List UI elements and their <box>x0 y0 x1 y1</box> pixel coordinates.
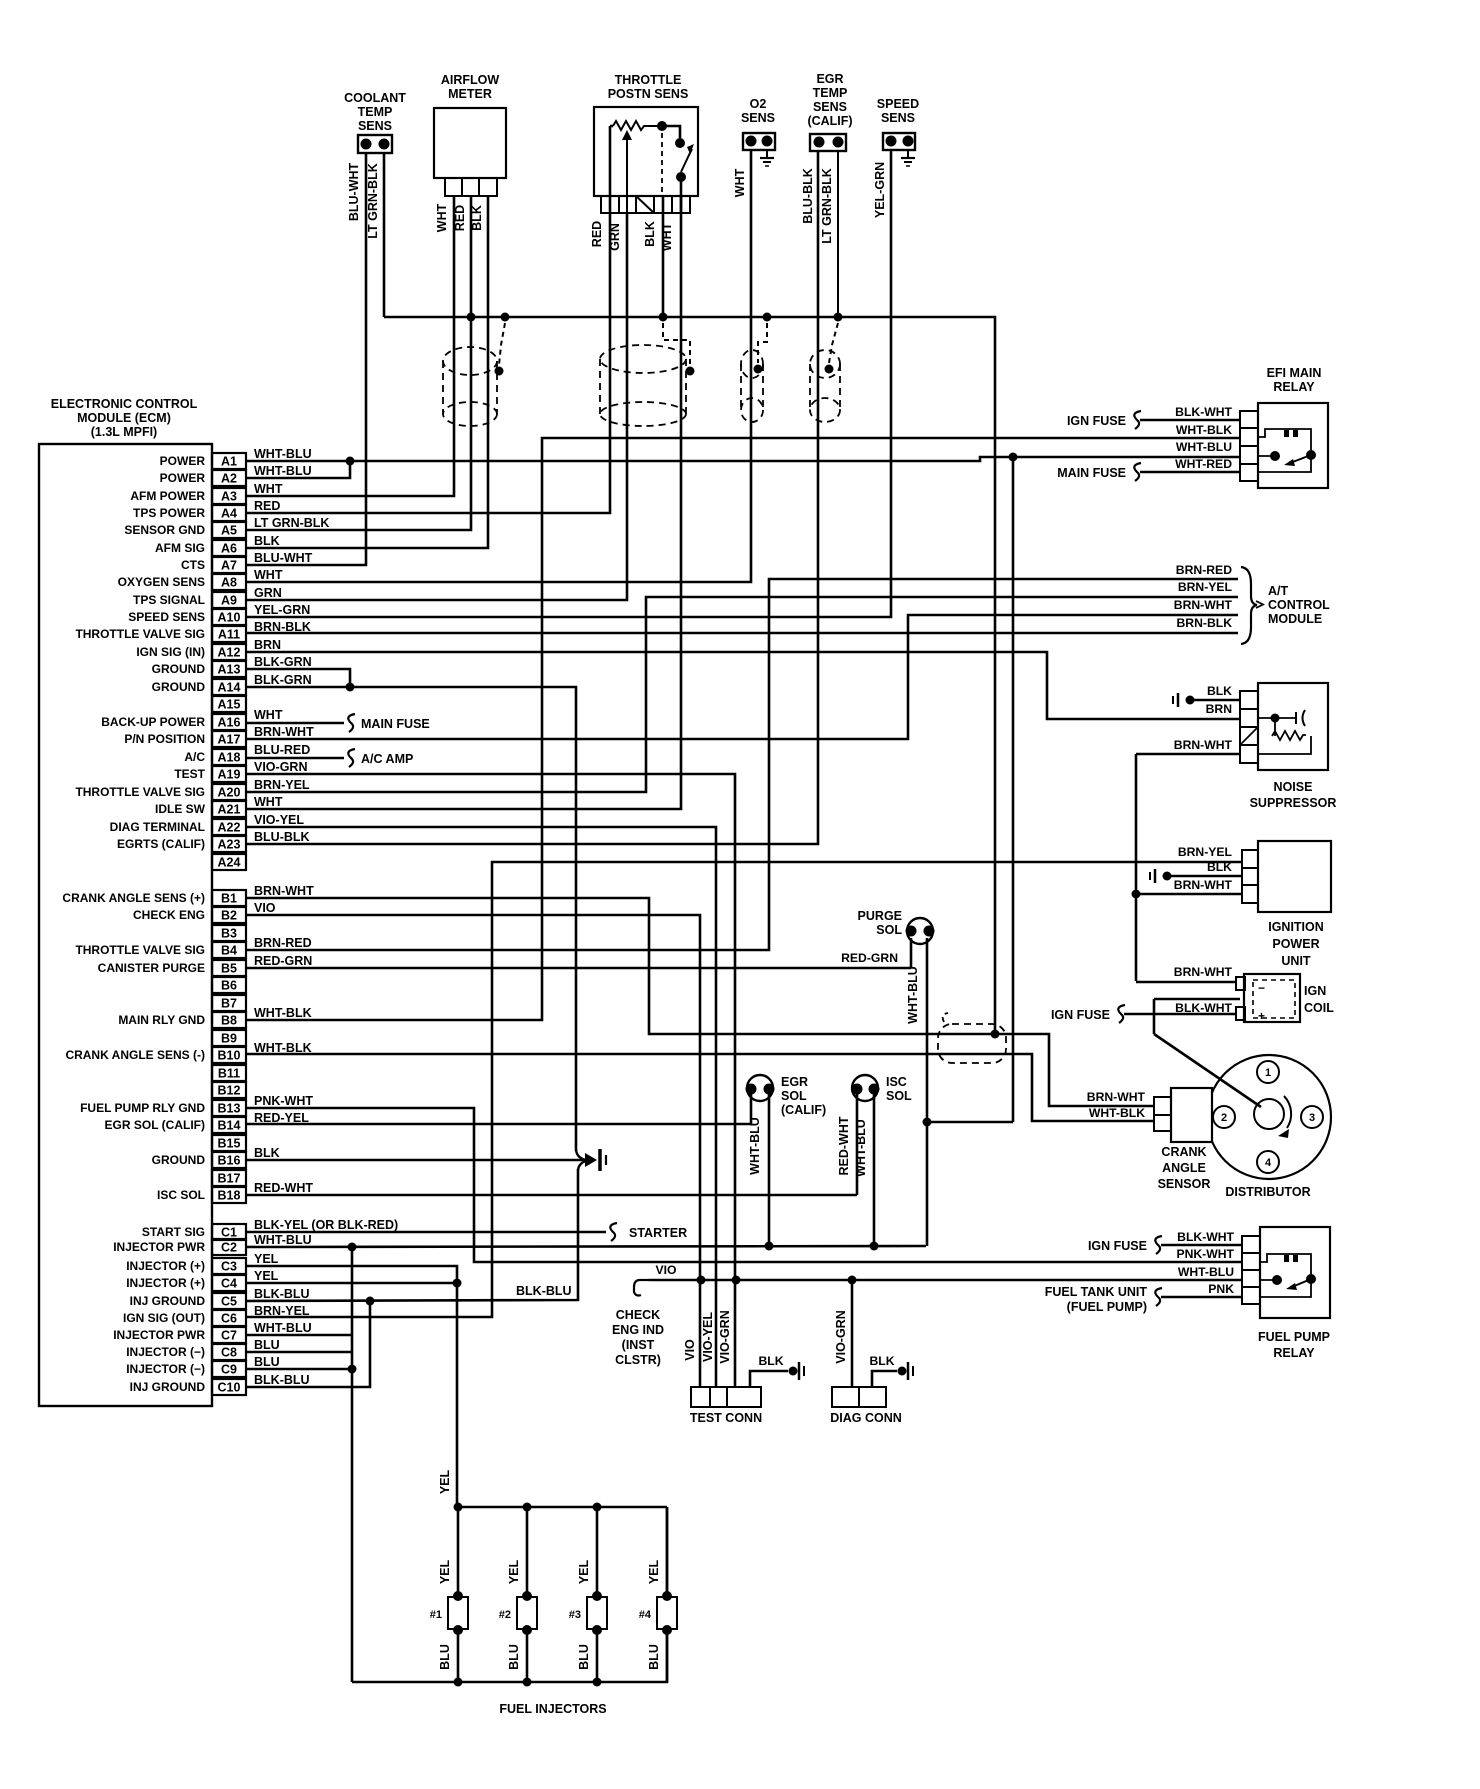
svg-text:LT GRN-BLK: LT GRN-BLK <box>820 168 834 243</box>
svg-text:VIO: VIO <box>254 901 276 915</box>
svg-text:START SIG: START SIG <box>142 1225 205 1239</box>
svg-text:INJECTOR (+): INJECTOR (+) <box>126 1276 205 1290</box>
svg-text:VIO-YEL: VIO-YEL <box>701 1312 715 1362</box>
svg-text:BLU: BLU <box>254 1355 280 1369</box>
svg-text:WHT-BLU: WHT-BLU <box>906 966 920 1024</box>
svg-text:BRN: BRN <box>254 638 281 652</box>
svg-text:ISC SOL: ISC SOL <box>157 1188 205 1202</box>
svg-text:BLK-WHT: BLK-WHT <box>1177 1230 1234 1244</box>
svg-text:BLU: BLU <box>507 1644 521 1670</box>
svg-text:ELECTRONIC CONTROL: ELECTRONIC CONTROL <box>51 397 198 411</box>
svg-text:BLK-BLU: BLK-BLU <box>254 1287 310 1301</box>
svg-text:WHT-BLK: WHT-BLK <box>1089 1106 1145 1120</box>
svg-text:A4: A4 <box>221 507 237 521</box>
svg-text:4: 4 <box>1265 1157 1272 1169</box>
svg-text:INJECTOR (−): INJECTOR (−) <box>126 1345 205 1359</box>
svg-text:C9: C9 <box>221 1363 237 1377</box>
svg-text:SENS: SENS <box>813 100 847 114</box>
svg-text:#4: #4 <box>639 1609 652 1621</box>
svg-text:BLU: BLU <box>577 1644 591 1670</box>
svg-text:WHT-BLU: WHT-BLU <box>1176 440 1232 454</box>
svg-text:WHT: WHT <box>254 708 283 722</box>
svg-text:BLU-WHT: BLU-WHT <box>254 551 313 565</box>
svg-text:UNIT: UNIT <box>1281 954 1311 968</box>
svg-text:CANISTER PURGE: CANISTER PURGE <box>98 961 205 975</box>
svg-text:BRN-RED: BRN-RED <box>254 936 312 950</box>
svg-text:IDLE SW: IDLE SW <box>155 802 206 816</box>
svg-text:BLK: BLK <box>869 1354 894 1368</box>
svg-text:WHT-BLK: WHT-BLK <box>254 1006 312 1020</box>
svg-text:WHT: WHT <box>254 795 283 809</box>
svg-text:CHECK: CHECK <box>616 1308 660 1322</box>
svg-text:TEMP: TEMP <box>813 86 848 100</box>
svg-text:SENSOR GND: SENSOR GND <box>124 523 205 537</box>
svg-text:MAIN FUSE: MAIN FUSE <box>361 717 430 731</box>
svg-text:(1.3L MPFI): (1.3L MPFI) <box>91 425 157 439</box>
svg-text:#1: #1 <box>430 1609 442 1621</box>
svg-text:EGR: EGR <box>816 72 843 86</box>
svg-text:BRN-BLK: BRN-BLK <box>1176 616 1232 630</box>
svg-text:DIAG CONN: DIAG CONN <box>830 1411 902 1425</box>
svg-text:A/T: A/T <box>1268 584 1289 598</box>
svg-text:CLSTR): CLSTR) <box>615 1353 661 1367</box>
svg-text:PNK-WHT: PNK-WHT <box>254 1094 313 1108</box>
svg-text:BLK: BLK <box>254 534 280 548</box>
svg-text:B18: B18 <box>218 1189 241 1203</box>
svg-text:ENG IND: ENG IND <box>612 1323 664 1337</box>
svg-text:YEL-GRN: YEL-GRN <box>873 162 887 218</box>
svg-text:SUPPRESSOR: SUPPRESSOR <box>1250 796 1337 810</box>
svg-text:CHECK ENG: CHECK ENG <box>133 908 205 922</box>
svg-text:B15: B15 <box>218 1137 241 1151</box>
svg-text:IGN SIG (OUT): IGN SIG (OUT) <box>123 1311 205 1325</box>
svg-text:TEMP: TEMP <box>358 105 393 119</box>
svg-text:PNK: PNK <box>1208 1282 1234 1296</box>
svg-text:METER: METER <box>448 87 492 101</box>
svg-text:BLK: BLK <box>758 1354 783 1368</box>
svg-text:B12: B12 <box>218 1084 241 1098</box>
svg-text:EFI MAIN: EFI MAIN <box>1267 366 1322 380</box>
svg-text:A13: A13 <box>218 663 241 677</box>
svg-text:BLK: BLK <box>254 1146 280 1160</box>
svg-text:C10: C10 <box>218 1381 241 1395</box>
svg-text:AFM POWER: AFM POWER <box>130 489 205 503</box>
svg-text:WHT-RED: WHT-RED <box>1175 457 1232 471</box>
svg-text:SENSOR: SENSOR <box>1158 1177 1211 1191</box>
svg-text:WHT-BLU: WHT-BLU <box>254 1233 312 1247</box>
svg-text:(INST: (INST <box>622 1338 655 1352</box>
svg-text:BRN-WHT: BRN-WHT <box>1174 878 1233 892</box>
svg-text:YEL: YEL <box>647 1559 661 1584</box>
svg-text:EGR: EGR <box>781 1075 808 1089</box>
svg-text:C5: C5 <box>221 1295 237 1309</box>
svg-text:P/N POSITION: P/N POSITION <box>124 732 205 746</box>
svg-text:PURGE: PURGE <box>858 909 902 923</box>
svg-text:CRANK ANGLE SENS (-): CRANK ANGLE SENS (-) <box>65 1048 205 1062</box>
svg-text:A8: A8 <box>221 576 237 590</box>
svg-text:BRN-YEL: BRN-YEL <box>1178 845 1233 859</box>
svg-text:A15: A15 <box>218 698 241 712</box>
svg-text:C7: C7 <box>221 1329 237 1343</box>
svg-text:VIO-GRN: VIO-GRN <box>254 760 307 774</box>
svg-text:(CALIF): (CALIF) <box>807 114 852 128</box>
svg-text:BLK: BLK <box>1207 860 1232 874</box>
svg-text:ISC: ISC <box>886 1075 907 1089</box>
svg-text:A24: A24 <box>218 856 241 870</box>
svg-text:BRN-WHT: BRN-WHT <box>254 884 314 898</box>
svg-text:BLK: BLK <box>643 221 657 247</box>
svg-text:YEL: YEL <box>254 1269 279 1283</box>
svg-text:BLK-GRN: BLK-GRN <box>254 673 312 687</box>
svg-text:COOLANT: COOLANT <box>344 91 406 105</box>
svg-text:RED: RED <box>453 205 467 231</box>
svg-text:INJECTOR (+): INJECTOR (+) <box>126 1259 205 1273</box>
svg-text:BLU-BLK: BLU-BLK <box>254 830 310 844</box>
svg-text:A21: A21 <box>218 803 241 817</box>
svg-text:BLK: BLK <box>470 205 484 231</box>
svg-text:A/C AMP: A/C AMP <box>361 752 413 766</box>
svg-text:(FUEL PUMP): (FUEL PUMP) <box>1067 1300 1147 1314</box>
svg-text:BLK-BLU: BLK-BLU <box>254 1373 310 1387</box>
svg-text:SENS: SENS <box>741 111 775 125</box>
svg-text:COIL: COIL <box>1304 1001 1334 1015</box>
svg-text:YEL: YEL <box>577 1559 591 1584</box>
svg-text:RELAY: RELAY <box>1273 380 1315 394</box>
svg-text:SPEED: SPEED <box>877 97 919 111</box>
svg-text:BLK-YEL (OR BLK-RED): BLK-YEL (OR BLK-RED) <box>254 1218 398 1232</box>
svg-text:C3: C3 <box>221 1260 237 1274</box>
svg-text:THROTTLE VALVE SIG: THROTTLE VALVE SIG <box>75 627 205 641</box>
svg-text:B17: B17 <box>218 1172 241 1186</box>
svg-text:IGN FUSE: IGN FUSE <box>1051 1008 1110 1022</box>
svg-text:A3: A3 <box>221 490 237 504</box>
svg-text:A7: A7 <box>221 559 237 573</box>
svg-text:BLU: BLU <box>647 1644 661 1670</box>
svg-text:B16: B16 <box>218 1154 241 1168</box>
svg-text:STARTER: STARTER <box>629 1226 687 1240</box>
svg-text:A23: A23 <box>218 838 241 852</box>
svg-text:C8: C8 <box>221 1346 237 1360</box>
svg-text:BLK-GRN: BLK-GRN <box>254 655 312 669</box>
svg-text:LT GRN-BLK: LT GRN-BLK <box>254 516 329 530</box>
svg-text:WHT-BLU: WHT-BLU <box>748 1117 762 1175</box>
svg-text:IGN SIG (IN): IGN SIG (IN) <box>136 645 205 659</box>
svg-text:TPS POWER: TPS POWER <box>133 506 205 520</box>
svg-text:POSTN SENS: POSTN SENS <box>608 87 689 101</box>
svg-text:INJECTOR PWR: INJECTOR PWR <box>113 1328 205 1342</box>
svg-text:INJ GROUND: INJ GROUND <box>130 1380 206 1394</box>
svg-text:BRN-WHT: BRN-WHT <box>1087 1090 1146 1104</box>
svg-text:BLU: BLU <box>254 1338 280 1352</box>
svg-text:B8: B8 <box>221 1014 237 1028</box>
svg-text:GROUND: GROUND <box>152 1153 206 1167</box>
svg-text:WHT-BLU: WHT-BLU <box>854 1119 868 1177</box>
svg-text:RED-WHT: RED-WHT <box>837 1116 851 1175</box>
svg-text:VIO: VIO <box>656 1263 677 1277</box>
svg-text:MODULE: MODULE <box>1268 612 1322 626</box>
svg-text:BLU: BLU <box>438 1644 452 1670</box>
svg-text:AIRFLOW: AIRFLOW <box>441 73 500 87</box>
svg-text:3: 3 <box>1309 1112 1315 1124</box>
svg-text:MAIN FUSE: MAIN FUSE <box>1057 466 1126 480</box>
svg-text:RED-GRN: RED-GRN <box>841 951 898 965</box>
svg-text:WHT: WHT <box>660 222 674 251</box>
svg-text:+: + <box>1258 1009 1265 1023</box>
svg-text:YEL: YEL <box>438 1559 452 1584</box>
svg-text:THROTTLE VALVE SIG: THROTTLE VALVE SIG <box>75 943 205 957</box>
svg-text:CONTROL: CONTROL <box>1268 598 1330 612</box>
svg-text:MODULE (ECM): MODULE (ECM) <box>77 411 171 425</box>
svg-text:YEL: YEL <box>254 1252 279 1266</box>
svg-text:IGNITION: IGNITION <box>1268 920 1324 934</box>
svg-text:DIAG TERMINAL: DIAG TERMINAL <box>110 820 205 834</box>
svg-text:THROTTLE VALVE SIG: THROTTLE VALVE SIG <box>75 785 205 799</box>
svg-text:A17: A17 <box>218 733 241 747</box>
svg-text:VIO-GRN: VIO-GRN <box>834 1310 848 1363</box>
svg-text:BACK-UP POWER: BACK-UP POWER <box>101 715 205 729</box>
svg-text:B7: B7 <box>221 997 237 1011</box>
svg-text:BLK-WHT: BLK-WHT <box>1175 405 1232 419</box>
svg-text:GROUND: GROUND <box>152 662 206 676</box>
svg-text:AFM SIG: AFM SIG <box>155 541 205 555</box>
svg-text:BRN-WHT: BRN-WHT <box>254 725 314 739</box>
svg-text:SENS: SENS <box>358 119 392 133</box>
svg-text:C6: C6 <box>221 1312 237 1326</box>
svg-text:FUEL PUMP RLY GND: FUEL PUMP RLY GND <box>80 1101 205 1115</box>
svg-text:CTS: CTS <box>181 558 205 572</box>
svg-text:WHT: WHT <box>733 168 747 197</box>
svg-text:#2: #2 <box>499 1609 511 1621</box>
svg-text:BRN-WHT: BRN-WHT <box>1174 738 1233 752</box>
svg-text:BRN-YEL: BRN-YEL <box>1178 580 1233 594</box>
svg-text:BRN-YEL: BRN-YEL <box>254 778 310 792</box>
svg-text:WHT: WHT <box>254 482 283 496</box>
svg-text:WHT-BLU: WHT-BLU <box>254 447 312 461</box>
svg-text:C2: C2 <box>221 1241 237 1255</box>
svg-text:YEL-GRN: YEL-GRN <box>254 603 310 617</box>
svg-text:B5: B5 <box>221 962 237 976</box>
svg-text:GROUND: GROUND <box>152 680 206 694</box>
svg-text:IGN FUSE: IGN FUSE <box>1067 414 1126 428</box>
svg-text:A2: A2 <box>221 472 237 486</box>
svg-text:1: 1 <box>1265 1067 1271 1079</box>
svg-text:WHT-BLU: WHT-BLU <box>254 1321 312 1335</box>
svg-text:A18: A18 <box>218 751 241 765</box>
svg-text:YEL: YEL <box>438 1469 452 1494</box>
svg-text:EGRTS (CALIF): EGRTS (CALIF) <box>117 837 205 851</box>
svg-text:CRANK: CRANK <box>1161 1145 1206 1159</box>
svg-text:A20: A20 <box>218 786 241 800</box>
svg-text:B1: B1 <box>221 892 237 906</box>
svg-text:A14: A14 <box>218 681 241 695</box>
svg-text:B11: B11 <box>218 1067 240 1081</box>
svg-text:RED-GRN: RED-GRN <box>254 954 312 968</box>
svg-text:B14: B14 <box>218 1119 241 1133</box>
svg-text:BRN-RED: BRN-RED <box>1176 563 1232 577</box>
svg-text:BLK-BLU: BLK-BLU <box>516 1284 572 1298</box>
svg-text:POWER: POWER <box>160 454 206 468</box>
svg-text:B13: B13 <box>218 1102 241 1116</box>
svg-text:C4: C4 <box>221 1277 237 1291</box>
svg-text:WHT: WHT <box>254 568 283 582</box>
svg-text:TEST: TEST <box>174 767 205 781</box>
svg-text:THROTTLE: THROTTLE <box>615 73 682 87</box>
svg-text:GRN: GRN <box>254 586 282 600</box>
svg-text:A16: A16 <box>218 716 241 730</box>
svg-text:POWER: POWER <box>160 471 206 485</box>
svg-text:RED-WHT: RED-WHT <box>254 1181 313 1195</box>
svg-text:TPS SIGNAL: TPS SIGNAL <box>133 593 205 607</box>
svg-text:PNK-WHT: PNK-WHT <box>1176 1247 1234 1261</box>
svg-text:CRANK ANGLE SENS (+): CRANK ANGLE SENS (+) <box>62 891 205 905</box>
svg-text:OXYGEN SENS: OXYGEN SENS <box>118 575 205 589</box>
svg-text:B4: B4 <box>221 944 237 958</box>
svg-text:VIO-YEL: VIO-YEL <box>254 813 304 827</box>
svg-text:FUEL PUMP: FUEL PUMP <box>1258 1330 1330 1344</box>
svg-text:BLK: BLK <box>1207 684 1232 698</box>
svg-text:WHT-BLU: WHT-BLU <box>1178 1265 1234 1279</box>
svg-text:WHT: WHT <box>435 203 449 232</box>
svg-text:TEST CONN: TEST CONN <box>690 1411 762 1425</box>
svg-text:FUEL TANK UNIT: FUEL TANK UNIT <box>1045 1285 1148 1299</box>
svg-text:BLU-RED: BLU-RED <box>254 743 310 757</box>
svg-text:INJECTOR (−): INJECTOR (−) <box>126 1362 205 1376</box>
svg-text:ANGLE: ANGLE <box>1162 1161 1206 1175</box>
svg-text:B10: B10 <box>218 1049 241 1063</box>
svg-text:RELAY: RELAY <box>1273 1346 1315 1360</box>
svg-text:IGN: IGN <box>1304 984 1326 998</box>
svg-text:GRN: GRN <box>608 223 622 251</box>
svg-text:A6: A6 <box>221 542 237 556</box>
svg-text:A1: A1 <box>221 455 237 469</box>
svg-text:VIO-GRN: VIO-GRN <box>718 1310 732 1363</box>
svg-text:FUEL INJECTORS: FUEL INJECTORS <box>499 1702 606 1716</box>
svg-text:POWER: POWER <box>1272 937 1319 951</box>
svg-text:SPEED SENS: SPEED SENS <box>128 610 205 624</box>
svg-text:LT GRN-BLK: LT GRN-BLK <box>366 163 380 238</box>
svg-text:C1: C1 <box>221 1226 237 1240</box>
svg-text:RED: RED <box>590 221 604 247</box>
svg-text:SOL: SOL <box>781 1089 807 1103</box>
svg-text:NOISE: NOISE <box>1274 780 1313 794</box>
svg-text:A5: A5 <box>221 524 237 538</box>
svg-text:2: 2 <box>1221 1112 1227 1124</box>
svg-text:(CALIF): (CALIF) <box>781 1103 826 1117</box>
svg-text:B2: B2 <box>221 909 237 923</box>
svg-text:A10: A10 <box>218 611 241 625</box>
svg-text:−: − <box>1258 981 1265 995</box>
svg-text:SOL: SOL <box>876 923 902 937</box>
svg-text:SOL: SOL <box>886 1089 912 1103</box>
svg-text:YEL: YEL <box>507 1559 521 1584</box>
svg-text:SENS: SENS <box>881 111 915 125</box>
svg-text:VIO: VIO <box>683 1339 697 1361</box>
svg-text:RED: RED <box>254 499 280 513</box>
svg-text:B9: B9 <box>221 1032 237 1046</box>
svg-text:O2: O2 <box>750 97 767 111</box>
svg-text:INJECTOR PWR: INJECTOR PWR <box>113 1240 205 1254</box>
svg-text:WHT-BLK: WHT-BLK <box>1176 423 1232 437</box>
svg-text:INJ GROUND: INJ GROUND <box>130 1294 206 1308</box>
svg-text:A22: A22 <box>218 821 241 835</box>
svg-text:A9: A9 <box>221 594 237 608</box>
svg-text:A11: A11 <box>218 628 240 642</box>
svg-text:BRN-WHT: BRN-WHT <box>1174 965 1233 979</box>
svg-text:BRN-WHT: BRN-WHT <box>1174 598 1233 612</box>
svg-text:WHT-BLU: WHT-BLU <box>254 464 312 478</box>
svg-text:#3: #3 <box>569 1609 581 1621</box>
svg-text:B6: B6 <box>221 979 237 993</box>
svg-text:DISTRIBUTOR: DISTRIBUTOR <box>1225 1185 1310 1199</box>
svg-text:EGR SOL (CALIF): EGR SOL (CALIF) <box>105 1118 205 1132</box>
svg-text:A19: A19 <box>218 768 241 782</box>
svg-text:MAIN RLY GND: MAIN RLY GND <box>118 1013 205 1027</box>
svg-text:BLU-WHT: BLU-WHT <box>347 162 361 221</box>
svg-text:A/C: A/C <box>184 750 205 764</box>
svg-text:BLU-BLK: BLU-BLK <box>801 168 815 224</box>
svg-text:A12: A12 <box>218 646 241 660</box>
svg-text:BRN: BRN <box>1206 702 1232 716</box>
svg-text:B3: B3 <box>221 927 237 941</box>
svg-text:IGN FUSE: IGN FUSE <box>1088 1239 1147 1253</box>
